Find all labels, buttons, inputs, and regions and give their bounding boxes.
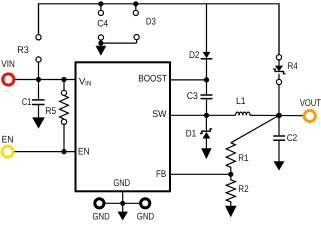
terminal VOUT: [304, 110, 315, 121]
svg-text:R2: R2: [238, 184, 248, 195]
capacitor C2: [273, 115, 285, 161]
junction BOOST/D2/C3: [205, 78, 209, 82]
capacitor C1: [32, 80, 45, 118]
junction GND: [121, 201, 125, 205]
resistor R1: [226, 143, 235, 175]
svg-text:R5: R5: [45, 106, 56, 117]
wire: EN: [15, 151, 76, 153]
resistor R3 (unpopulated pads): [36, 4, 41, 80]
capacitor C3: [201, 80, 213, 115]
junction VOUT node: [277, 113, 281, 117]
junction VIN/R3/C1: [37, 78, 41, 82]
wire: top rail: [39, 4, 280, 55]
ground (R2): [225, 206, 237, 218]
svg-text:BOOST: BOOST: [138, 74, 167, 85]
resistor R2: [226, 174, 235, 206]
terminal EN: [2, 146, 13, 157]
junction D3 tap: [134, 2, 138, 6]
svg-text:C3: C3: [187, 91, 198, 102]
svg-text:C4: C4: [97, 18, 109, 29]
resistor R5 (with pads): [60, 80, 69, 152]
inductor L1: [236, 112, 251, 115]
svg-text:L1: L1: [236, 96, 246, 107]
junction EN/R5: [62, 150, 66, 154]
svg-text:GND: GND: [92, 211, 109, 222]
svg-text:GND: GND: [113, 178, 130, 189]
wire: GND stub from IC: [122, 191, 124, 203]
svg-text:C2: C2: [287, 133, 298, 144]
junction SW/C3/D1: [205, 113, 209, 117]
svg-text:R4: R4: [288, 61, 299, 72]
junction FB: [229, 172, 233, 176]
svg-text:D3: D3: [146, 17, 156, 28]
diode D1 (schottky): [200, 115, 212, 148]
wire: VIN rail: [15, 79, 75, 81]
ground (IC GND): [118, 203, 128, 220]
svg-text:FB: FB: [156, 169, 166, 180]
ground (C2): [274, 161, 285, 170]
junction strap: [99, 41, 103, 45]
wire: VOUT to R1 (slant): [231, 115, 279, 142]
diode D2: [201, 4, 213, 80]
wire: C4/D3 ground strap: [101, 42, 137, 44]
svg-text:EN: EN: [2, 134, 14, 145]
svg-text:SW: SW: [152, 109, 167, 120]
terminal VIN: [3, 74, 14, 85]
wire: SW net: [170, 114, 236, 116]
wire: BOOST net: [170, 79, 207, 81]
terminal GND left: [95, 199, 104, 208]
svg-text:C1: C1: [22, 97, 32, 108]
wire: FB net: [170, 173, 231, 175]
svg-text:GND: GND: [137, 211, 154, 222]
svg-text:R1: R1: [238, 153, 248, 164]
wire: GND strap: [99, 202, 145, 204]
wire: L1 to VOUT: [250, 114, 303, 116]
svg-text:D2: D2: [189, 50, 200, 61]
svg-text:EN: EN: [78, 147, 90, 158]
resistor R4 (pads with schottky symbol): [273, 4, 285, 116]
svg-text:VIN: VIN: [1, 59, 15, 70]
svg-text:D1: D1: [186, 129, 197, 140]
capacitor C4 (unpopulated pads): [98, 4, 103, 43]
svg-text:VOUT: VOUT: [300, 98, 321, 109]
ground (D1): [201, 148, 211, 159]
junction VIN/R5: [62, 78, 66, 82]
IC U1 regulator box: [76, 62, 171, 191]
diode D3 (unpopulated pads): [133, 4, 139, 43]
terminal GND right: [141, 199, 150, 208]
svg-text:R3: R3: [17, 45, 29, 56]
ground (C1): [32, 117, 45, 128]
ground (C4/D3): [96, 43, 107, 56]
junction C4 tap: [99, 2, 103, 6]
svg-text:IN: IN: [85, 80, 91, 87]
